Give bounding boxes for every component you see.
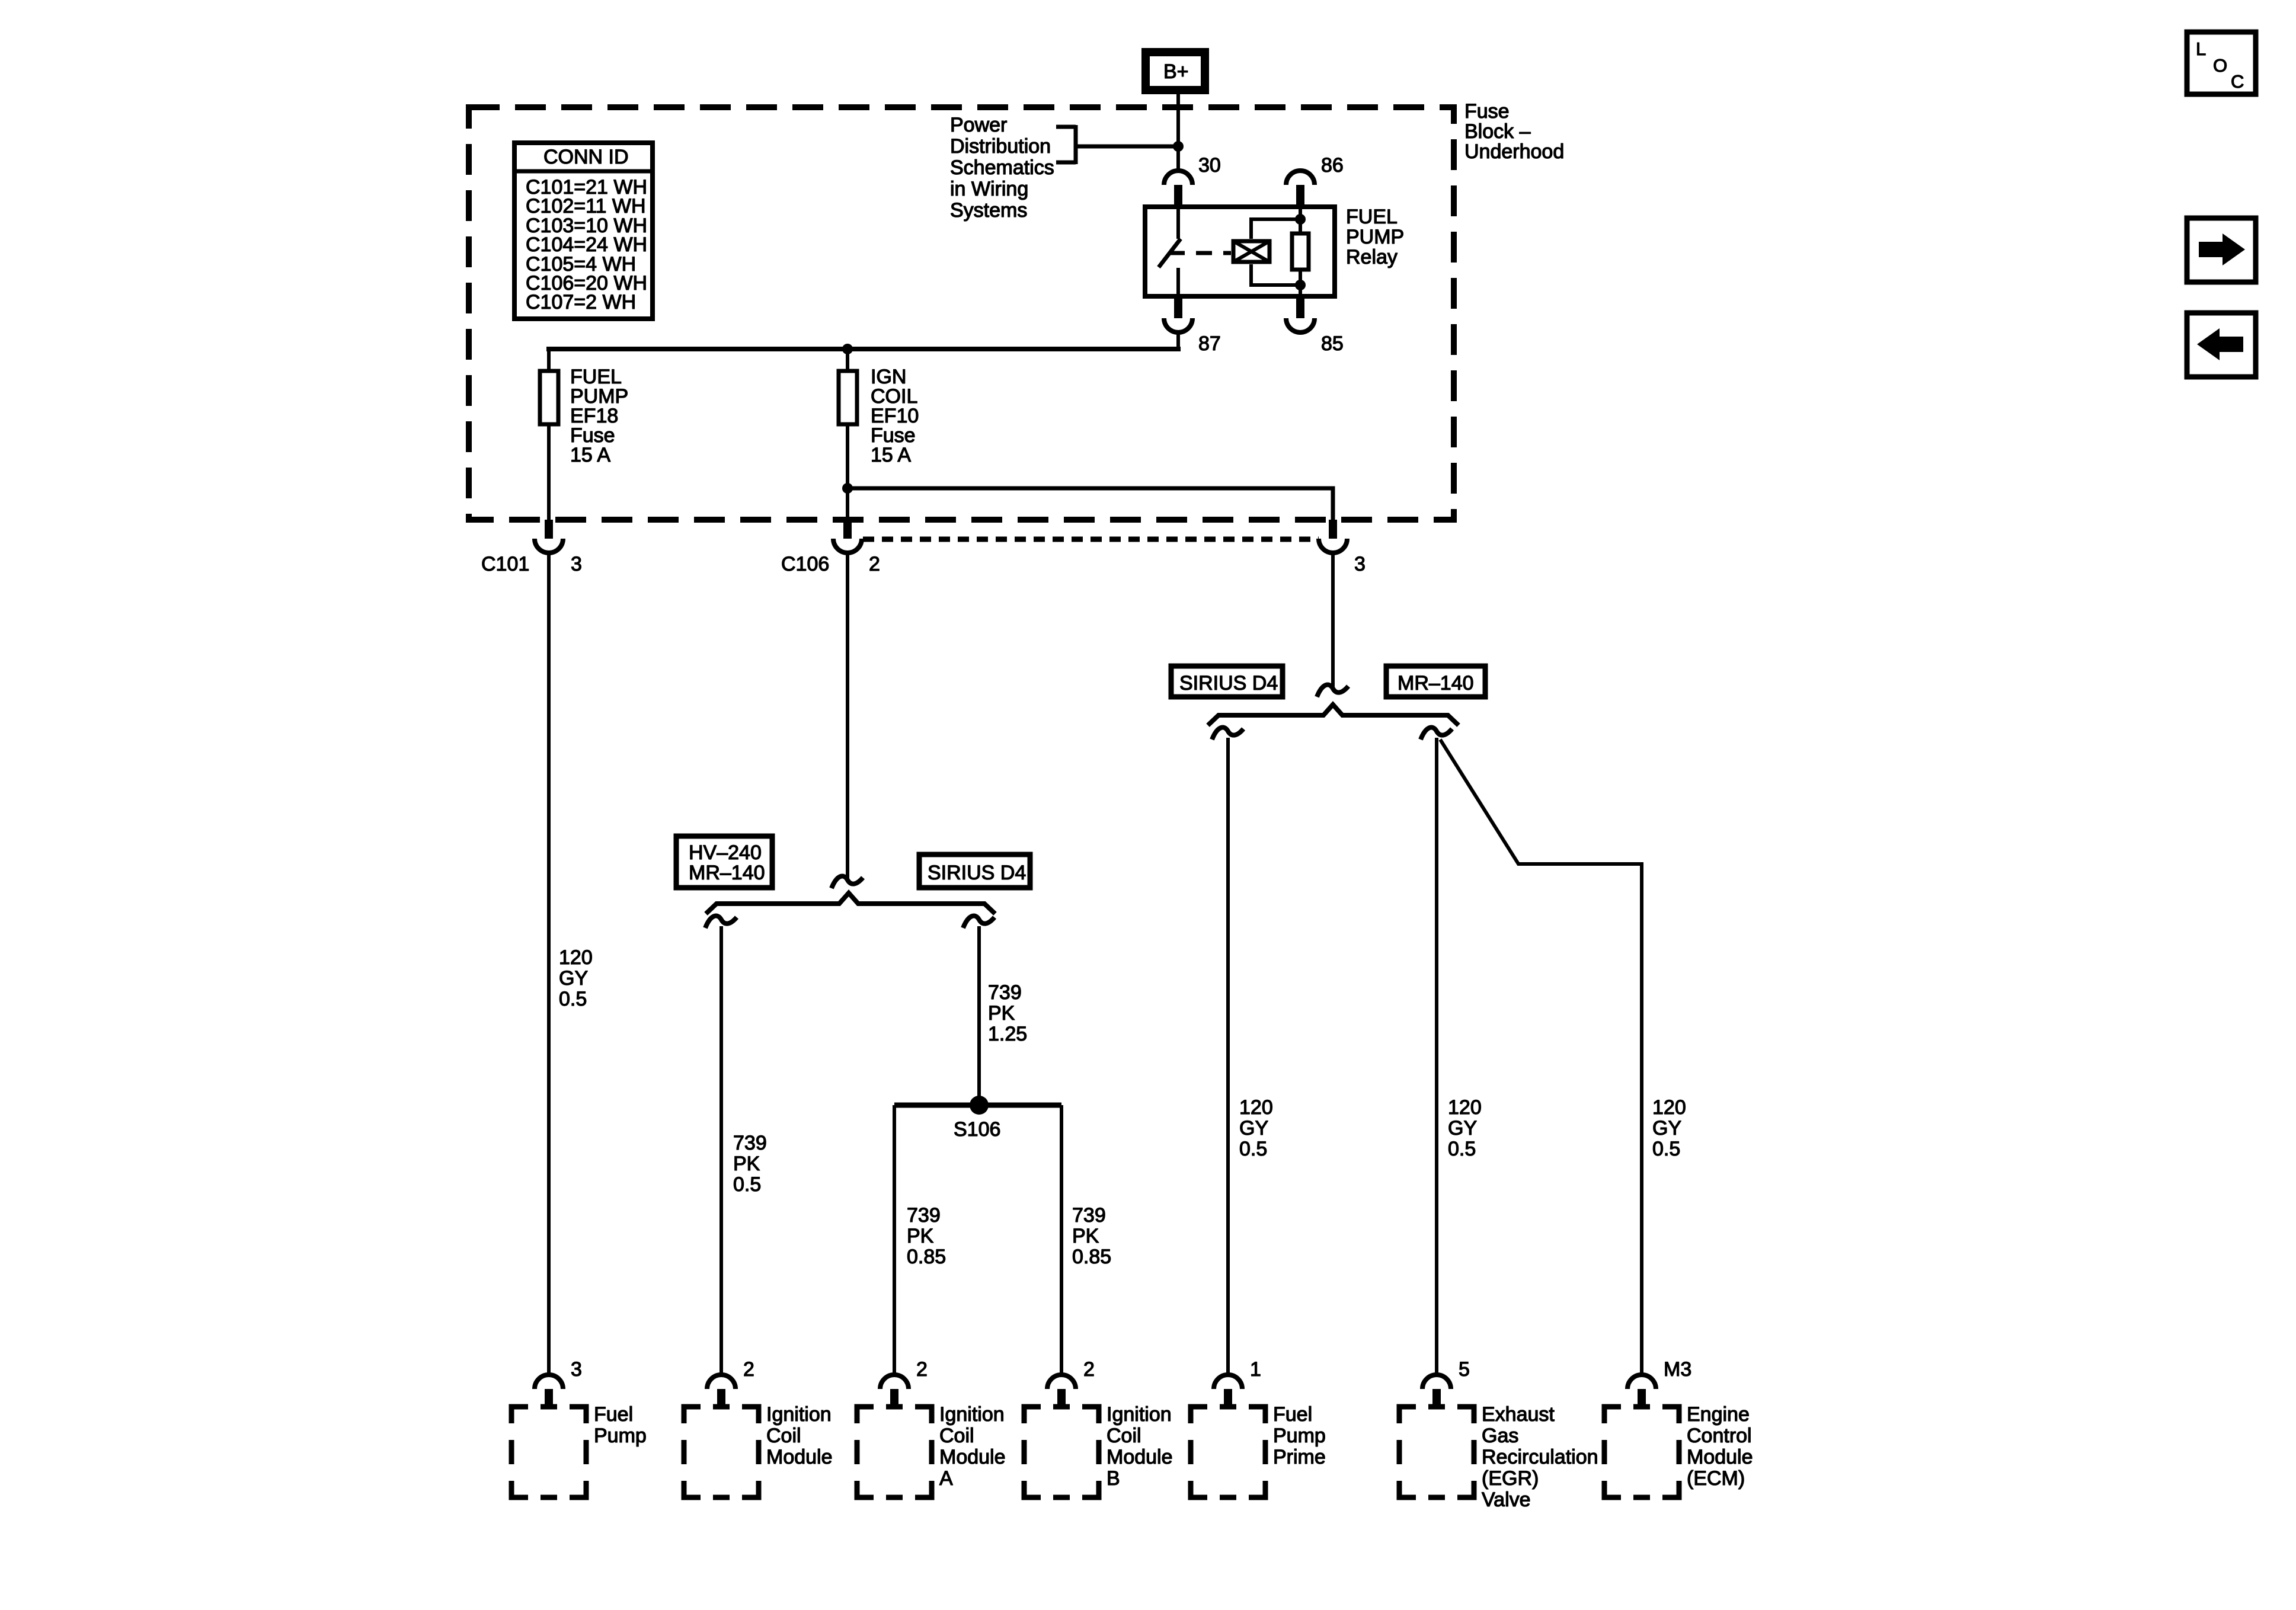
wire break below brace right (EGR / ECM) bbox=[1421, 728, 1452, 740]
connector stub at ECM bbox=[1638, 1389, 1646, 1409]
svg-text:Coil: Coil bbox=[939, 1425, 974, 1447]
svg-text:S106: S106 bbox=[954, 1118, 1000, 1141]
svg-text:Control: Control bbox=[1687, 1425, 1752, 1447]
brace under middle harness labels bbox=[706, 893, 995, 914]
connector arc at Fuel Pump Prime bbox=[1214, 1375, 1242, 1389]
svg-text:B+: B+ bbox=[1163, 60, 1189, 83]
connector stub at Fuel Pump Prime bbox=[1224, 1389, 1232, 1409]
svg-text:CONN ID: CONN ID bbox=[543, 146, 629, 168]
label EGR Valve bbox=[1482, 1403, 1598, 1511]
svg-text:M3: M3 bbox=[1664, 1358, 1691, 1381]
svg-text:120: 120 bbox=[1652, 1096, 1686, 1119]
svg-text:Coil: Coil bbox=[766, 1425, 801, 1447]
CONN ID table bbox=[514, 143, 653, 319]
svg-text:PUMP: PUMP bbox=[1346, 226, 1404, 248]
svg-text:in Wiring: in Wiring bbox=[950, 178, 1028, 200]
relay internal wire resistor to pin85 bbox=[1299, 270, 1302, 296]
svg-text:MR–140: MR–140 bbox=[1398, 672, 1474, 694]
label Ignition Coil Module B bbox=[1107, 1403, 1173, 1490]
module box Fuel Pump Prime (dashed) bbox=[1191, 1407, 1265, 1497]
svg-text:C: C bbox=[2231, 71, 2244, 92]
svg-text:Block –: Block – bbox=[1464, 120, 1531, 143]
svg-text:0.5: 0.5 bbox=[559, 988, 587, 1010]
label Ignition Coil Module bbox=[766, 1403, 833, 1468]
svg-text:Ignition: Ignition bbox=[939, 1403, 1005, 1426]
svg-text:Valve: Valve bbox=[1482, 1489, 1531, 1511]
connector arc at Fuel Pump bbox=[535, 1375, 563, 1389]
relay pin 85 connector arc bbox=[1286, 318, 1315, 332]
wire bus to FUEL PUMP fuse to connector C101 bbox=[547, 349, 551, 521]
wire label 739 PK 0.5 bbox=[733, 1132, 767, 1196]
svg-text:0.5: 0.5 bbox=[1652, 1138, 1680, 1160]
fuse F1 FUEL PUMP EF18 15A bbox=[540, 371, 558, 424]
svg-text:Exhaust: Exhaust bbox=[1482, 1403, 1555, 1426]
relay pin 87 connector arc bbox=[1164, 318, 1192, 332]
wire break below middle brace right (to S106) bbox=[963, 916, 994, 928]
wire pin 87 down to bus bbox=[1176, 332, 1180, 351]
svg-text:Ignition: Ignition bbox=[1107, 1403, 1172, 1426]
svg-text:Recirculation: Recirculation bbox=[1482, 1446, 1598, 1468]
relay pin 30 stub bbox=[1174, 185, 1182, 207]
wire to splice S106 bbox=[977, 926, 981, 1105]
svg-text:PK: PK bbox=[988, 1002, 1015, 1025]
label Fuel Pump bbox=[594, 1403, 647, 1447]
svg-text:1: 1 bbox=[1250, 1358, 1261, 1381]
wire to Ignition Coil Module B bbox=[1060, 1105, 1063, 1375]
module box Ignition Coil Module (dashed) bbox=[684, 1407, 759, 1497]
relay pin 85 stub bbox=[1296, 296, 1304, 318]
splice bus S106 bbox=[894, 1103, 1061, 1108]
connector arc at Ignition Coil Module A bbox=[880, 1375, 909, 1389]
wire break at C106 branch bbox=[832, 876, 863, 888]
svg-text:C101: C101 bbox=[481, 553, 529, 575]
svg-text:2: 2 bbox=[1083, 1358, 1095, 1381]
connector C106 stub bbox=[843, 520, 852, 539]
connector pin 3 right stub bbox=[1329, 520, 1337, 539]
svg-text:Module: Module bbox=[1107, 1446, 1173, 1468]
svg-text:739: 739 bbox=[988, 981, 1022, 1004]
harness label box MR-140 (right) bbox=[1386, 666, 1485, 697]
svg-text:739: 739 bbox=[733, 1132, 767, 1154]
wire label 120 GY 0.5 (ECM) bbox=[1652, 1096, 1686, 1160]
svg-text:FUEL: FUEL bbox=[1346, 206, 1398, 228]
svg-text:MR–140: MR–140 bbox=[689, 862, 765, 884]
svg-text:Pump: Pump bbox=[1273, 1425, 1326, 1447]
svg-text:15 A: 15 A bbox=[871, 444, 911, 466]
svg-text:HV–240: HV–240 bbox=[689, 841, 762, 864]
svg-text:Coil: Coil bbox=[1107, 1425, 1141, 1447]
svg-text:3: 3 bbox=[571, 553, 582, 575]
svg-text:739: 739 bbox=[907, 1204, 941, 1227]
junction dot bus at IGN COIL fuse bbox=[842, 344, 853, 354]
label Fuel Pump Prime bbox=[1273, 1403, 1326, 1468]
svg-text:O: O bbox=[2213, 55, 2227, 76]
svg-text:GY: GY bbox=[1448, 1117, 1477, 1140]
brace under right harness labels bbox=[1208, 705, 1459, 725]
svg-text:Prime: Prime bbox=[1273, 1446, 1326, 1468]
svg-text:GY: GY bbox=[1652, 1117, 1681, 1140]
svg-text:120: 120 bbox=[1239, 1096, 1273, 1119]
svg-text:PK: PK bbox=[733, 1153, 760, 1175]
relay pin 87 stub bbox=[1174, 296, 1182, 318]
svg-text:SIRIUS D4: SIRIUS D4 bbox=[928, 862, 1026, 884]
dotted harness line between C106 and right connector bbox=[863, 537, 1319, 542]
wire diagonal to ECM branch bbox=[1440, 740, 1642, 1375]
wire label 739 PK 0.85 (module B) bbox=[1072, 1204, 1111, 1268]
harness label box HV-240 MR-140 (middle) bbox=[676, 836, 772, 888]
svg-text:A: A bbox=[939, 1467, 953, 1490]
svg-text:1.25: 1.25 bbox=[988, 1023, 1027, 1045]
harness label box SIRIUS D4 (middle) bbox=[919, 854, 1030, 888]
module box EGR Valve (dashed) bbox=[1399, 1407, 1474, 1497]
module box ECM (dashed) bbox=[1604, 1407, 1679, 1497]
relay coil box with X bbox=[1233, 241, 1269, 262]
svg-text:Module: Module bbox=[766, 1446, 833, 1468]
connector C101 stub bbox=[545, 520, 553, 539]
wire coil top to resistor top bbox=[1251, 219, 1298, 239]
svg-text:SIRIUS D4: SIRIUS D4 bbox=[1179, 672, 1278, 694]
svg-text:B: B bbox=[1107, 1467, 1120, 1490]
svg-text:Relay: Relay bbox=[1346, 246, 1398, 268]
label FUEL PUMP EF18 Fuse 15 A bbox=[570, 366, 628, 466]
connector pin 3 right arc bbox=[1319, 539, 1347, 553]
relay actuation dashed link bbox=[1169, 251, 1231, 255]
bus wire from pin 87 to fuses bbox=[546, 347, 1181, 351]
svg-text:Ignition: Ignition bbox=[766, 1403, 832, 1426]
relay internal wire pin86 to resistor bbox=[1299, 207, 1302, 233]
connector stub at Ignition Coil Module bbox=[717, 1389, 725, 1409]
wire right pin3 down to branch bbox=[1331, 553, 1335, 687]
wire label 120 GY 0.5 (fuel pump prime) bbox=[1239, 1096, 1273, 1160]
wire label 120 GY 0.5 (fuel pump) bbox=[559, 946, 593, 1010]
label Ignition Coil Module A bbox=[939, 1403, 1006, 1490]
svg-text:GY: GY bbox=[559, 967, 588, 990]
wire label 120 GY 0.5 (EGR) bbox=[1448, 1096, 1482, 1160]
resistor R (relay coil suppression) bbox=[1292, 233, 1309, 270]
junction dot below IGN COIL fuse bbox=[842, 483, 853, 494]
svg-text:15 A: 15 A bbox=[570, 444, 610, 466]
svg-text:Distribution: Distribution bbox=[950, 135, 1051, 158]
fuse block dashed outline (Fuse Block - Underhood) bbox=[469, 107, 1454, 520]
wire label 739 PK 0.85 (module A) bbox=[907, 1204, 946, 1268]
svg-text:739: 739 bbox=[1072, 1204, 1106, 1227]
svg-text:5: 5 bbox=[1459, 1358, 1470, 1381]
wire C106 pin2 down to splice area bbox=[846, 553, 849, 879]
wire break at right branch bbox=[1317, 685, 1348, 697]
label IGN COIL EF10 Fuse 15 A bbox=[871, 366, 919, 466]
svg-text:Systems: Systems bbox=[950, 199, 1027, 222]
svg-text:C106: C106 bbox=[781, 553, 829, 575]
svg-text:L: L bbox=[2196, 39, 2206, 59]
svg-text:Underhood: Underhood bbox=[1464, 140, 1564, 163]
wire break below brace left (Fuel Pump Prime) bbox=[1212, 728, 1243, 740]
LOC indicator box bbox=[2187, 32, 2256, 94]
wire B+ down to relay pin 30 bbox=[1176, 94, 1180, 172]
svg-text:2: 2 bbox=[743, 1358, 754, 1381]
svg-text:85: 85 bbox=[1321, 332, 1344, 355]
wire to Ignition Coil Module A bbox=[893, 1105, 896, 1375]
svg-text:C107=2 WH: C107=2 WH bbox=[526, 291, 636, 313]
svg-text:30: 30 bbox=[1198, 154, 1221, 177]
module box Fuel Pump (dashed) bbox=[511, 1407, 586, 1497]
svg-text:PK: PK bbox=[1072, 1225, 1099, 1247]
svg-text:Fuel: Fuel bbox=[594, 1403, 633, 1426]
bracket and wire from Power Distribution note to B+ feed bbox=[1056, 125, 1176, 164]
wire to Ignition Coil Module bbox=[720, 926, 723, 1375]
left arrow navigation box bbox=[2187, 313, 2256, 377]
wire to EGR valve bbox=[1435, 738, 1438, 1375]
junction dot resistor top bbox=[1295, 214, 1306, 225]
wire C101 pin3 down to Fuel Pump bbox=[547, 553, 551, 1375]
relay pin 86 stub bbox=[1296, 185, 1304, 207]
svg-text:(EGR): (EGR) bbox=[1482, 1467, 1539, 1490]
splice S106 dot bbox=[970, 1096, 989, 1115]
harness label box SIRIUS D4 (right) bbox=[1171, 666, 1283, 697]
connector stub at EGR Valve bbox=[1432, 1389, 1441, 1409]
connector C101 arc bbox=[535, 539, 563, 553]
svg-text:(ECM): (ECM) bbox=[1687, 1467, 1745, 1490]
wire bus to IGN COIL fuse to connector C106 bbox=[846, 349, 849, 521]
relay K1 FUEL PUMP Relay box bbox=[1145, 207, 1335, 296]
label FUEL PUMP Relay bbox=[1346, 206, 1404, 268]
relay switch blade bbox=[1159, 239, 1181, 267]
connector arc at EGR Valve bbox=[1422, 1375, 1451, 1389]
svg-text:Module: Module bbox=[1687, 1446, 1753, 1468]
label ECM bbox=[1687, 1403, 1753, 1490]
junction dot resistor bottom bbox=[1295, 280, 1306, 290]
svg-text:0.85: 0.85 bbox=[907, 1246, 946, 1268]
svg-text:86: 86 bbox=[1321, 154, 1344, 177]
svg-text:Schematics: Schematics bbox=[950, 156, 1054, 179]
right arrow navigation box bbox=[2187, 218, 2256, 282]
connector arc at Ignition Coil Module bbox=[707, 1375, 736, 1389]
module box Ignition Coil Module B (dashed) bbox=[1024, 1407, 1099, 1497]
svg-text:Gas: Gas bbox=[1482, 1425, 1518, 1447]
svg-text:Fuse: Fuse bbox=[1464, 100, 1510, 123]
junction node on B+ feed bbox=[1173, 141, 1184, 152]
module box Ignition Coil Module A (dashed) bbox=[857, 1407, 932, 1497]
connector arc at ECM bbox=[1627, 1375, 1656, 1389]
svg-text:GY: GY bbox=[1239, 1117, 1268, 1140]
svg-text:0.85: 0.85 bbox=[1072, 1246, 1111, 1268]
svg-text:3: 3 bbox=[571, 1358, 582, 1381]
label Fuse Block - Underhood bbox=[1464, 100, 1564, 163]
svg-text:3: 3 bbox=[1354, 553, 1366, 575]
wire break below middle brace left (Ignition Coil Module) bbox=[705, 916, 737, 928]
svg-text:2: 2 bbox=[869, 553, 880, 575]
relay pin 86 connector arc bbox=[1286, 171, 1315, 185]
power feed B+ bbox=[1146, 52, 1205, 90]
svg-text:PK: PK bbox=[907, 1225, 934, 1247]
svg-text:0.5: 0.5 bbox=[1239, 1138, 1267, 1160]
wire label 739 PK 1.25 bbox=[988, 981, 1027, 1045]
svg-text:Power: Power bbox=[950, 114, 1007, 136]
svg-text:Module: Module bbox=[939, 1446, 1006, 1468]
wire branch right to third feed through connector bbox=[848, 488, 1333, 521]
svg-text:0.5: 0.5 bbox=[733, 1173, 761, 1196]
relay switch contact 30 side bbox=[1176, 207, 1180, 239]
svg-text:Pump: Pump bbox=[594, 1425, 647, 1447]
svg-text:120: 120 bbox=[1448, 1096, 1482, 1119]
connector C106 arc bbox=[833, 539, 862, 553]
svg-text:2: 2 bbox=[916, 1358, 928, 1381]
wire to Fuel Pump Prime bbox=[1226, 738, 1230, 1375]
svg-text:120: 120 bbox=[559, 946, 593, 969]
connector stub at Ignition Coil Module A bbox=[890, 1389, 898, 1409]
relay switch contact 87 side bbox=[1176, 268, 1180, 296]
relay pin 30 connector arc bbox=[1164, 171, 1192, 185]
svg-text:87: 87 bbox=[1198, 332, 1221, 355]
connector stub at Fuel Pump bbox=[545, 1389, 553, 1409]
fuse F2 IGN COIL EF10 15A bbox=[839, 371, 857, 424]
label Power Distribution Schematics in Wiring Systems bbox=[950, 114, 1054, 222]
connector stub at Ignition Coil Module B bbox=[1057, 1389, 1066, 1409]
wire coil bottom to resistor bottom bbox=[1251, 264, 1298, 285]
connector arc at Ignition Coil Module B bbox=[1047, 1375, 1076, 1389]
svg-text:0.5: 0.5 bbox=[1448, 1138, 1476, 1160]
svg-text:Engine: Engine bbox=[1687, 1403, 1750, 1426]
svg-text:Fuel: Fuel bbox=[1273, 1403, 1312, 1426]
